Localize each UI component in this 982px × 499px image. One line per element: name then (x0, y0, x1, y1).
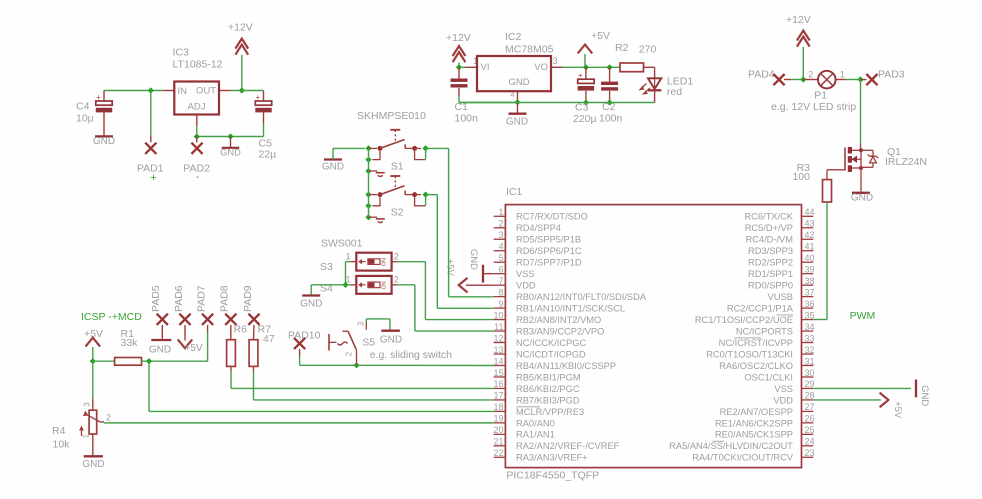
svg-text:C3: C3 (575, 102, 589, 114)
svg-text:+: + (150, 172, 156, 184)
svg-text:OSC1/CLKI: OSC1/CLKI (744, 372, 793, 382)
svg-text:2: 2 (106, 413, 111, 423)
svg-text:RB5/KBI1/PGM: RB5/KBI1/PGM (516, 372, 581, 382)
svg-text:1: 1 (345, 252, 350, 262)
svg-text:VO: VO (534, 62, 548, 73)
svg-text:41: 41 (805, 242, 815, 252)
svg-text:RB3/AN9/CCP2/VPO: RB3/AN9/CCP2/VPO (516, 326, 604, 336)
svg-text:10µ: 10µ (76, 113, 94, 125)
svg-text:27: 27 (805, 402, 815, 412)
svg-text:IC3: IC3 (173, 47, 190, 59)
svg-text:RA3/AN3/VREF+: RA3/AN3/VREF+ (516, 453, 588, 463)
svg-text:IC2: IC2 (505, 31, 522, 43)
svg-text:RC5/D+/VP: RC5/D+/VP (745, 223, 793, 233)
svg-text:RB4/AN11/KBI0/CSSPP: RB4/AN11/KBI0/CSSPP (516, 361, 616, 371)
svg-text:32: 32 (805, 345, 815, 355)
svg-text:100: 100 (792, 171, 810, 183)
svg-text:39: 39 (805, 264, 815, 274)
svg-text:22: 22 (493, 448, 503, 458)
svg-text:4: 4 (498, 242, 503, 252)
svg-text:33: 33 (805, 333, 815, 343)
svg-text:VSS: VSS (516, 269, 535, 279)
svg-text:17: 17 (493, 391, 503, 401)
svg-text:VDD: VDD (516, 281, 536, 291)
svg-text:RA1/AN1: RA1/AN1 (516, 430, 555, 440)
svg-text:6: 6 (498, 264, 503, 274)
svg-text:35: 35 (805, 310, 815, 320)
svg-text:11: 11 (494, 322, 503, 332)
svg-text:GND: GND (919, 385, 930, 406)
svg-text:SKHMPSE010: SKHMPSE010 (357, 110, 426, 122)
svg-text:GND: GND (508, 77, 529, 88)
svg-text:7: 7 (498, 276, 503, 286)
svg-text:RA5/AN4/SS/HLVDIN/C2OUT: RA5/AN4/SS/HLVDIN/C2OUT (669, 441, 793, 451)
svg-text:GND: GND (300, 299, 322, 310)
svg-text:+12V: +12V (446, 32, 471, 44)
svg-text:15: 15 (493, 368, 503, 378)
svg-text:S2: S2 (391, 207, 404, 219)
svg-text:8: 8 (498, 287, 503, 297)
svg-text:VSS: VSS (774, 384, 793, 394)
svg-text:RB0/AN12/INT0/FLT0/SDI/SDA: RB0/AN12/INT0/FLT0/SDI/SDA (516, 292, 647, 302)
svg-text:VDD: VDD (773, 395, 793, 405)
svg-text:NC/ICCK/ICPGC: NC/ICCK/ICPGC (516, 338, 587, 348)
svg-text:RB2/AN8/INT2/VMO: RB2/AN8/INT2/VMO (516, 315, 601, 325)
svg-text:PAD3: PAD3 (878, 69, 905, 81)
svg-text:+12V: +12V (786, 14, 811, 26)
svg-text:9: 9 (498, 299, 503, 309)
svg-text:5: 5 (498, 253, 503, 263)
svg-text:RE2/AN7/OESPP: RE2/AN7/OESPP (720, 407, 793, 417)
svg-text:RA4/T0CKI/CIOUT/RCV: RA4/T0CKI/CIOUT/RCV (692, 453, 794, 463)
svg-text:+5V: +5V (185, 343, 203, 354)
svg-text:MC78M05: MC78M05 (505, 44, 554, 56)
svg-text:VUSB: VUSB (768, 292, 793, 302)
svg-text:S3: S3 (320, 261, 333, 273)
svg-text:3: 3 (553, 56, 558, 66)
svg-text:S5: S5 (362, 337, 375, 349)
svg-text:2: 2 (345, 351, 354, 356)
svg-text:3: 3 (498, 230, 503, 240)
svg-text:S1: S1 (391, 161, 404, 173)
svg-text:PIC18F4550_TQFP: PIC18F4550_TQFP (506, 470, 599, 482)
svg-text:PAD8: PAD8 (219, 285, 231, 312)
svg-text:100n: 100n (599, 113, 623, 125)
svg-text:16: 16 (493, 379, 503, 389)
svg-text:IC1: IC1 (506, 186, 523, 198)
svg-text:2: 2 (808, 70, 813, 80)
svg-text:ADJ: ADJ (188, 102, 206, 113)
svg-text:VI: VI (481, 62, 490, 73)
svg-text:PAD5: PAD5 (150, 285, 162, 312)
svg-text:RA6/OSC2/CLKO: RA6/OSC2/CLKO (719, 361, 793, 371)
svg-text:+: + (578, 71, 583, 80)
svg-text:RE1/AN6/CK2SPP: RE1/AN6/CK2SPP (715, 418, 793, 428)
svg-text:2: 2 (394, 275, 399, 285)
svg-text:33k: 33k (121, 337, 139, 349)
svg-text:RE0/AN5/CK1SPP: RE0/AN5/CK1SPP (715, 430, 793, 440)
svg-text:30: 30 (805, 368, 815, 378)
svg-text:RD6/SPP6/P1C: RD6/SPP6/P1C (516, 246, 582, 256)
svg-text:+5V: +5V (591, 30, 610, 42)
svg-text:P1: P1 (814, 90, 827, 102)
svg-text:RB6/KBI2/PGC: RB6/KBI2/PGC (516, 384, 580, 394)
svg-text:42: 42 (805, 230, 815, 240)
svg-text:GND: GND (93, 136, 115, 147)
svg-text:220µ: 220µ (573, 113, 597, 125)
svg-text:RD7/SPP7/P1D: RD7/SPP7/P1D (516, 258, 582, 268)
svg-text:PAD9: PAD9 (242, 285, 254, 312)
svg-text:RC4/D-/VM: RC4/D-/VM (745, 235, 793, 245)
svg-text:1: 1 (498, 207, 503, 217)
svg-text:RB7/KBI3/PGD: RB7/KBI3/PGD (516, 395, 580, 405)
svg-text:NC/ICPORTS: NC/ICPORTS (736, 326, 793, 336)
svg-text:R6: R6 (234, 324, 248, 336)
svg-text:-: - (196, 172, 199, 183)
svg-text:NC/ICDT/ICPGD: NC/ICDT/ICPGD (516, 349, 586, 359)
svg-text:ON: ON (382, 258, 388, 266)
svg-text:PAD6: PAD6 (173, 285, 185, 312)
svg-text:LT1085-12: LT1085-12 (173, 59, 223, 71)
svg-text:14: 14 (493, 356, 503, 366)
svg-text:44: 44 (805, 207, 815, 217)
svg-text:2: 2 (394, 252, 399, 262)
svg-text:31: 31 (805, 356, 815, 366)
svg-text:ON: ON (382, 281, 388, 289)
svg-text:26: 26 (805, 414, 815, 424)
svg-text:3: 3 (357, 321, 366, 326)
svg-text:47: 47 (263, 333, 275, 345)
svg-text:GND: GND (506, 117, 528, 128)
svg-text:GND: GND (149, 345, 171, 356)
svg-text:MCLR/VPP/RE3: MCLR/VPP/RE3 (516, 407, 584, 417)
svg-text:+5V: +5V (892, 401, 903, 419)
svg-text:RA2/AN2/VREF-/CVREF: RA2/AN2/VREF-/CVREF (516, 441, 620, 451)
svg-text:40: 40 (805, 253, 815, 263)
svg-text:RC1/T1OSI/CCP2/UOE: RC1/T1OSI/CCP2/UOE (695, 315, 793, 325)
svg-text:RB1/AN10/INT1/SCK/SCL: RB1/AN10/INT1/SCK/SCL (516, 304, 625, 314)
svg-text:R2: R2 (615, 42, 629, 54)
svg-text:43: 43 (805, 219, 815, 229)
svg-text:+5V: +5V (444, 259, 455, 277)
svg-text:SWS001: SWS001 (321, 238, 363, 250)
svg-text:RD3/SPP3: RD3/SPP3 (748, 246, 793, 256)
svg-text:PAD4: PAD4 (748, 69, 775, 81)
svg-text:C4: C4 (76, 101, 90, 113)
svg-text:28: 28 (805, 391, 815, 401)
svg-text:RD5/SPP5/P1B: RD5/SPP5/P1B (516, 235, 581, 245)
svg-text:RD1/SPP1: RD1/SPP1 (748, 269, 793, 279)
svg-text:RD2/SPP2: RD2/SPP2 (748, 258, 793, 268)
svg-text:4: 4 (510, 90, 514, 99)
svg-text:RC6/TX/CK: RC6/TX/CK (744, 212, 793, 222)
svg-text:23: 23 (805, 448, 815, 458)
svg-text:34: 34 (805, 322, 815, 332)
svg-text:20: 20 (493, 425, 503, 435)
svg-text:1: 1 (840, 70, 845, 80)
svg-text:RD4/SPP4: RD4/SPP4 (516, 223, 561, 233)
svg-text:OUT: OUT (196, 86, 216, 97)
svg-text:GND: GND (322, 161, 344, 172)
svg-text:3: 3 (82, 402, 91, 407)
svg-text:13: 13 (493, 345, 503, 355)
svg-text:24: 24 (805, 437, 815, 447)
svg-text:2: 2 (498, 219, 503, 229)
svg-text:19: 19 (493, 414, 503, 424)
svg-text:12: 12 (493, 333, 503, 343)
svg-text:+12V: +12V (228, 22, 253, 34)
svg-text:PAD7: PAD7 (195, 285, 207, 312)
svg-text:NC/ICRST/ICVPP: NC/ICRST/ICVPP (719, 338, 793, 348)
svg-text:R4: R4 (52, 425, 66, 437)
svg-text:270: 270 (639, 44, 657, 56)
svg-text:GND: GND (220, 148, 241, 158)
svg-text:IN: IN (178, 86, 188, 97)
svg-text:10k: 10k (53, 438, 71, 450)
svg-text:RC2/CCP1/P1A: RC2/CCP1/P1A (727, 304, 794, 314)
svg-text:38: 38 (805, 276, 815, 286)
svg-text:ICSP -+MCD: ICSP -+MCD (81, 311, 142, 323)
svg-text:RA0/AN0: RA0/AN0 (516, 418, 555, 428)
svg-text:e.g. 12V LED strip: e.g. 12V LED strip (771, 101, 856, 113)
svg-text:RC7/RX/DT/SDO: RC7/RX/DT/SDO (516, 212, 588, 222)
svg-text:GND: GND (380, 335, 402, 346)
svg-text:37: 37 (805, 287, 815, 297)
svg-text:21: 21 (493, 437, 503, 447)
svg-text:22µ: 22µ (259, 149, 277, 161)
svg-text:10: 10 (493, 310, 503, 320)
svg-text:GND: GND (82, 459, 104, 470)
svg-text:RD0/SPP0: RD0/SPP0 (748, 281, 793, 291)
svg-text:29: 29 (805, 379, 815, 389)
svg-text:18: 18 (493, 402, 503, 412)
svg-text:+: + (96, 93, 101, 102)
svg-text:red: red (667, 86, 682, 98)
svg-text:1: 1 (82, 434, 91, 439)
svg-text:25: 25 (805, 425, 815, 435)
svg-text:PWM: PWM (850, 310, 876, 322)
svg-text:+: + (256, 93, 261, 102)
svg-text:IRLZ24N: IRLZ24N (885, 156, 927, 168)
svg-text:100n: 100n (455, 113, 479, 125)
svg-text:GND: GND (851, 192, 873, 203)
svg-text:GND: GND (468, 249, 479, 270)
svg-text:RC0/T1OSO/T13CKI: RC0/T1OSO/T13CKI (706, 349, 793, 359)
svg-text:e.g. sliding switch: e.g. sliding switch (370, 349, 452, 361)
svg-text:36: 36 (805, 299, 815, 309)
